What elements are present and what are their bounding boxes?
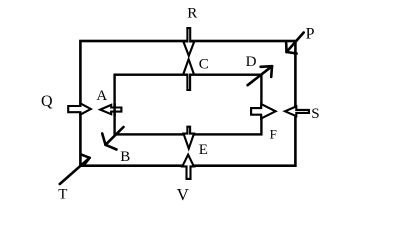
svg-text:P: P — [306, 26, 315, 43]
svg-text:B: B — [120, 149, 130, 165]
arrow R (hollow, pointing down into outer top) — [183, 28, 194, 56]
svg-text:A: A — [96, 88, 107, 104]
svg-text:R: R — [187, 6, 197, 22]
svg-text:V: V — [177, 185, 190, 204]
arrow Q (hollow, pointing right into outer left) — [68, 103, 91, 114]
inner-left wall segment over A shaft — [113, 103, 115, 116]
svg-text:E: E — [199, 142, 208, 158]
arrow F (hollow, pointing right out of inner right wall) — [251, 104, 276, 118]
arrow P (open diagonal, pointing down-left through outer top-right corner) — [286, 33, 304, 54]
arrow C (hollow, pointing up into inner top) — [183, 59, 194, 90]
arrow B (open diagonal, pointing down-left through inner bottom-left corner) — [102, 127, 123, 150]
outer rectangle — [80, 41, 295, 166]
arrow A (hollow, pointing left at inner left wall) — [100, 105, 121, 114]
arrow V (hollow, pointing up into outer bottom) — [182, 155, 194, 179]
inner rectangle — [115, 75, 262, 135]
arrow T (open diagonal, pointing up-right through outer bottom-left corner) — [60, 154, 90, 184]
svg-text:F: F — [270, 127, 277, 142]
arrow S (hollow, pointing left into outer right) — [285, 106, 309, 116]
arrow E (hollow, pointing down out of inner bottom) — [184, 127, 195, 149]
svg-text:C: C — [199, 57, 209, 73]
svg-text:T: T — [58, 187, 67, 203]
svg-text:S: S — [311, 106, 319, 122]
svg-text:Q: Q — [41, 93, 53, 110]
arrow D (open diagonal, pointing up-right through inner top-right corner) — [248, 66, 272, 85]
svg-text:D: D — [246, 54, 257, 70]
